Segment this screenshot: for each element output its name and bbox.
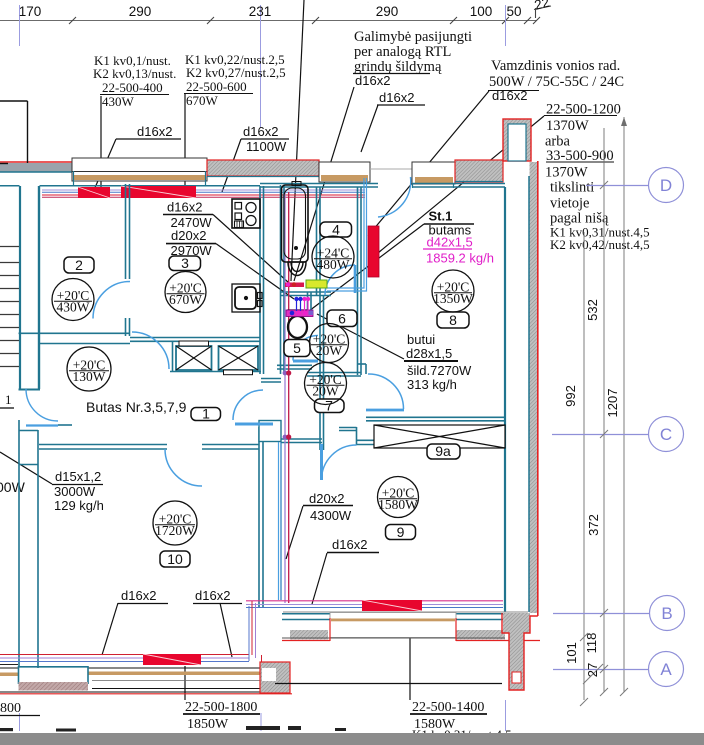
svg-text:1850W: 1850W [187, 717, 229, 732]
door arc wc [233, 390, 263, 420]
wall staircase right [19, 186, 21, 389]
annotation RTL floor heating [354, 29, 472, 75]
bottom left pipe run [0, 655, 249, 662]
right exterior wall [530, 162, 538, 613]
label kitchen d16x2 2470W d20x2 2970W [167, 200, 212, 259]
svg-text:d28x1,5: d28x1,5 [406, 346, 452, 361]
wall wc|room6 [319, 296, 321, 450]
svg-text:5: 5 [293, 340, 301, 356]
svg-text:3: 3 [181, 255, 189, 271]
svg-text:d16x2: d16x2 [355, 73, 390, 88]
label butui d28x1,5 [406, 332, 472, 392]
top pipe run [42, 190, 365, 197]
svg-text:6: 6 [338, 311, 346, 327]
svg-text:D: D [660, 176, 672, 195]
closet crossed room1 a [176, 346, 212, 370]
svg-text:1859.2 kg/h: 1859.2 kg/h [426, 251, 494, 266]
grid line B [553, 596, 685, 631]
annotation 22-500-1200 block [545, 102, 650, 253]
radiator bottom 1580W [362, 600, 422, 611]
svg-text:K2 kv0,27/nust.2,5: K2 kv0,27/nust.2,5 [186, 65, 286, 80]
svg-text:118: 118 [584, 633, 599, 654]
svg-text:992: 992 [563, 385, 578, 407]
svg-text:1: 1 [202, 406, 210, 422]
dimension ticks right [580, 181, 628, 706]
svg-text:1100W: 1100W [246, 139, 287, 154]
wall wc bottom [277, 364, 312, 366]
svg-text:430W: 430W [102, 94, 135, 109]
svg-text:372: 372 [586, 514, 601, 536]
svg-text:d16x2: d16x2 [137, 124, 172, 139]
wall room2 left [38, 186, 40, 389]
svg-text:231: 231 [249, 4, 272, 19]
svg-text:per analogą RTL: per analogą RTL [354, 44, 451, 60]
ROOM NUMBER BOXES [64, 222, 469, 567]
svg-text:A: A [660, 660, 672, 679]
svg-text:d16x2: d16x2 [167, 200, 202, 215]
sink appliance [232, 284, 262, 312]
green manifold box [306, 280, 327, 288]
window reveal jambs [74, 171, 454, 188]
svg-text:tikslinti: tikslinti [550, 180, 594, 196]
manifold magenta [286, 310, 313, 317]
wall room6|8 [357, 187, 359, 375]
svg-text:532: 532 [585, 299, 600, 321]
svg-text:butui: butui [407, 332, 435, 347]
wall room2|kitchen [125, 184, 127, 279]
TEMPERATURE CIRCLES [52, 236, 474, 545]
svg-text:290: 290 [129, 4, 152, 19]
washbasin [288, 262, 306, 276]
blue riser d20 [278, 442, 280, 600]
bottom wall left section [0, 665, 292, 694]
svg-text:1370W: 1370W [545, 165, 588, 181]
svg-text:3000W: 3000W [54, 484, 96, 499]
towel radiator [368, 226, 379, 277]
pipe drop to step block [261, 655, 263, 668]
closet crossed 9a [374, 425, 505, 448]
wall bath bottom [281, 291, 331, 293]
pipe connectors [249, 601, 256, 661]
door arc apartment entry [26, 389, 58, 421]
risers vertical pipes [284, 192, 286, 603]
svg-text:B: B [661, 604, 672, 623]
top dimension numbers [19, 0, 551, 19]
leader lines [0, 0, 544, 700]
wall kitchen|bath [259, 186, 261, 374]
svg-text:1370W: 1370W [546, 118, 589, 134]
door arc bathroom [378, 177, 411, 217]
svg-text:Galimybė pasijungti: Galimybė pasijungti [354, 29, 472, 45]
label St.1 riser [429, 209, 472, 238]
door arc room9a [368, 374, 404, 409]
svg-text:10: 10 [167, 551, 183, 567]
svg-text:22-500-400: 22-500-400 [102, 80, 163, 95]
svg-text:d20x2: d20x2 [309, 491, 344, 506]
door arc room2 [93, 282, 130, 319]
door arc kitchen [132, 332, 169, 369]
svg-text:šild.7270W: šild.7270W [407, 363, 472, 378]
valve bar upper [285, 283, 304, 288]
cut text fragments above bar [0, 726, 346, 732]
svg-text:d16x2: d16x2 [243, 124, 278, 139]
label d20x2 4300W [309, 491, 352, 523]
svg-text:129 kg/h: 129 kg/h [54, 498, 104, 513]
wall room10|9 [258, 427, 260, 608]
annotation block K1 second [185, 52, 286, 108]
grid axis verticals (lavender) [20, 5, 506, 731]
walls near room 9a door [366, 416, 505, 418]
bottom gray bar [0, 733, 704, 745]
svg-text:290: 290 [376, 4, 399, 19]
dimension tick marks [69, 6, 551, 24]
grid line A [553, 652, 684, 687]
svg-text:K2 kv0,42/nust.4,5: K2 kv0,42/nust.4,5 [550, 237, 650, 252]
svg-text:9: 9 [397, 524, 405, 540]
svg-text:St.1: St.1 [429, 209, 453, 224]
INTERIOR WALLS [19, 184, 506, 669]
svg-text:Vamzdinis vonios rad.: Vamzdinis vonios rad. [491, 58, 620, 74]
svg-text:800: 800 [0, 701, 21, 716]
svg-text:670W: 670W [186, 93, 219, 108]
opening between windows [370, 168, 412, 170]
elevator shaft outline top left [0, 101, 28, 164]
niche divider [307, 292, 309, 310]
svg-text:22-500-600: 22-500-600 [186, 79, 247, 94]
svg-text:4: 4 [332, 222, 340, 238]
wall bath|room8 top [260, 183, 378, 185]
wall segment left hatched [0, 163, 74, 172]
svg-text:50: 50 [506, 4, 521, 19]
wall bath|wc right [316, 187, 318, 296]
svg-text:1207: 1207 [605, 389, 620, 418]
top dimension chain line [0, 20, 537, 22]
svg-text:d42x1,5: d42x1,5 [427, 235, 473, 250]
window 1 [72, 158, 207, 181]
grid line C [552, 417, 684, 452]
wall pier hatched 3 [455, 160, 503, 182]
annotation block K1 left [93, 53, 176, 109]
door arc hall-room9 [322, 445, 357, 480]
label d15x1,2 [54, 469, 104, 513]
wall room6 bottom [307, 372, 361, 374]
rotated dimension labels [563, 299, 620, 677]
wall pier hatched [207, 160, 319, 176]
svg-text:7: 7 [325, 398, 333, 414]
svg-text:101: 101 [564, 642, 579, 664]
towel rad feed pipes [327, 178, 367, 291]
riser valve dots [283, 370, 292, 439]
closet enclosure walls [170, 341, 261, 372]
bottom right corner steps [275, 613, 538, 690]
svg-text:d16x2: d16x2 [379, 90, 414, 105]
staircase treads [0, 247, 19, 367]
svg-text:4300W: 4300W [310, 508, 352, 523]
svg-text:d16x2: d16x2 [195, 588, 230, 603]
svg-text:C: C [660, 425, 672, 444]
svg-text:d16x2: d16x2 [332, 537, 367, 552]
window 3 [412, 162, 455, 184]
wc lower walls [281, 438, 322, 440]
grid line D [586, 168, 684, 203]
wall bath left [280, 185, 282, 374]
step block between bottom walls [260, 662, 290, 693]
radiator bottom 1850W [143, 654, 201, 665]
svg-text:vietoje: vietoje [550, 196, 589, 212]
left wall lower room10 [18, 420, 20, 666]
closet crossed room1 b [219, 346, 259, 370]
annotation towel radiator [489, 58, 624, 90]
window 2 [319, 162, 370, 182]
svg-text:8: 8 [449, 312, 457, 328]
bathtub [282, 182, 309, 263]
svg-text:K2 kv0,13/nust.: K2 kv0,13/nust. [93, 66, 176, 81]
hall bottom wall [39, 444, 167, 446]
svg-text:313 kg/h: 313 kg/h [407, 377, 457, 392]
door arc hall-room10 [165, 449, 202, 486]
radiator R2 430W [78, 187, 110, 198]
svg-text:00W: 00W [0, 479, 26, 495]
toilet [288, 310, 308, 338]
bottom right pipe run [246, 601, 503, 608]
right rooms east wall [504, 187, 506, 612]
chimney protrusion top right [503, 119, 531, 161]
svg-text:27: 27 [585, 663, 600, 677]
svg-text:d16x2: d16x2 [121, 588, 156, 603]
svg-text:Butas Nr.3,5,7,9: Butas Nr.3,5,7,9 [86, 399, 187, 415]
svg-text:1: 1 [5, 392, 12, 407]
svg-text:d15x1,2: d15x1,2 [55, 469, 101, 484]
door arc wc inner [293, 336, 318, 361]
RIGHT DIMENSION COLUMN [584, 117, 624, 700]
svg-text:170: 170 [19, 4, 42, 19]
door arc room6 [325, 265, 355, 295]
svg-text:2: 2 [75, 257, 83, 273]
bottom wall right section [282, 612, 540, 641]
stove [232, 199, 260, 228]
small dots pair [296, 300, 298, 311]
svg-text:d20x2: d20x2 [171, 228, 206, 243]
svg-text:100: 100 [470, 4, 493, 19]
svg-text:9a: 9a [435, 443, 451, 459]
radiator R3 670W [121, 186, 196, 198]
door arcs [26, 177, 411, 486]
svg-text:22-500-1800: 22-500-1800 [185, 700, 257, 715]
hall top wall [19, 332, 131, 334]
jog near F door [356, 427, 358, 445]
svg-text:22-500-1400: 22-500-1400 [412, 700, 484, 715]
